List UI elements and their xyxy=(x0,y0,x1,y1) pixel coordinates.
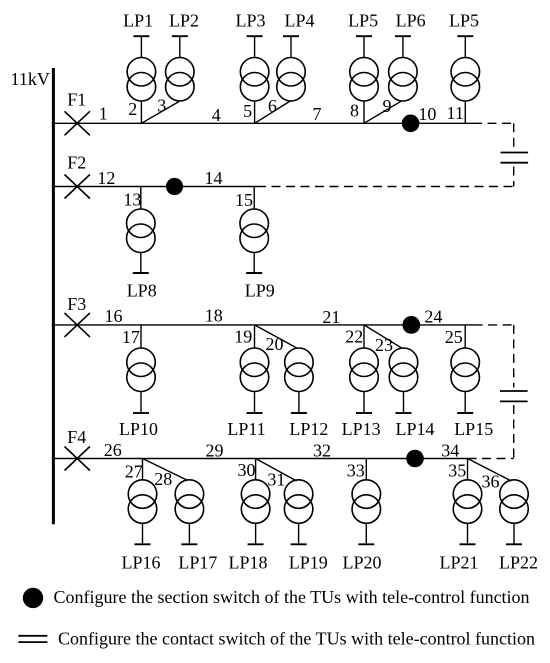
transformer LP13 xyxy=(350,325,379,413)
svg-text:LP15: LP15 xyxy=(454,419,493,439)
svg-text:LP3: LP3 xyxy=(235,10,265,30)
wire branch to LP12 (diagonal) xyxy=(255,325,297,348)
fuse/breaker F2 xyxy=(65,175,90,199)
svg-text:LP9: LP9 xyxy=(245,280,275,300)
svg-text:LP18: LP18 xyxy=(228,553,267,573)
svg-text:5: 5 xyxy=(243,101,252,121)
11kV busbar xyxy=(52,68,55,524)
svg-text:LP13: LP13 xyxy=(342,419,381,439)
svg-text:1: 1 xyxy=(99,104,108,124)
svg-text:F1: F1 xyxy=(67,90,86,110)
wire F2 tie (dashed) xyxy=(257,186,514,188)
svg-text:30: 30 xyxy=(238,460,256,480)
svg-text:F2: F2 xyxy=(67,153,86,173)
transformer LP16 xyxy=(128,459,157,545)
contact switch (tele-control) F1-F2 xyxy=(501,153,529,163)
svg-text:14: 14 xyxy=(205,168,223,188)
svg-text:2: 2 xyxy=(128,99,137,119)
fuse/breaker F4 xyxy=(65,447,90,471)
svg-text:Configure the section switch o: Configure the section switch of the TUs … xyxy=(54,587,530,607)
wire tie riser (dashed) F1 side xyxy=(513,123,515,149)
transformer LP20 xyxy=(352,459,381,545)
svg-text:29: 29 xyxy=(206,441,224,461)
transformer LP15 xyxy=(451,325,480,413)
contact switch (tele-control) F3-F4 xyxy=(500,391,528,401)
svg-text:36: 36 xyxy=(482,472,500,492)
transformer LP10 xyxy=(127,325,156,413)
svg-text:13: 13 xyxy=(123,190,141,210)
svg-text:LP4: LP4 xyxy=(284,10,314,30)
transformer LP17 xyxy=(175,480,204,545)
svg-text:16: 16 xyxy=(105,306,123,326)
svg-text:31: 31 xyxy=(267,470,285,490)
svg-text:35: 35 xyxy=(448,461,466,481)
transformer LP19 xyxy=(284,480,313,545)
transformer LP18 xyxy=(241,459,270,545)
section switch (tele-control) legend xyxy=(23,588,43,608)
svg-text:LP12: LP12 xyxy=(289,419,328,439)
svg-text:34: 34 xyxy=(441,441,459,461)
transformer LP6 xyxy=(389,36,418,101)
fuse/breaker F3 xyxy=(65,313,90,337)
wire branch to LP2 (diagonal) xyxy=(141,102,179,124)
transformer LP2 xyxy=(166,36,195,101)
svg-text:Configure the contact switch o: Configure the contact switch of the TUs … xyxy=(58,629,535,649)
wire F3 tie (dashed) xyxy=(474,324,514,326)
svg-text:17: 17 xyxy=(122,327,140,347)
svg-text:27: 27 xyxy=(125,462,143,482)
wire branch to LP19 (diagonal) xyxy=(256,459,297,482)
svg-text:19: 19 xyxy=(234,327,252,347)
svg-text:LP8: LP8 xyxy=(127,280,157,300)
svg-text:F3: F3 xyxy=(67,294,86,314)
svg-text:21: 21 xyxy=(322,307,340,327)
transformer LP8 xyxy=(127,187,156,274)
svg-text:32: 32 xyxy=(313,441,331,461)
svg-text:LP2: LP2 xyxy=(169,10,199,30)
transformer LP11 xyxy=(240,325,269,413)
wire feeder F2 trunk xyxy=(53,186,257,188)
svg-text:24: 24 xyxy=(424,307,442,327)
transformer LP22 xyxy=(500,480,529,545)
wire feeder F1 trunk xyxy=(53,122,473,124)
svg-text:18: 18 xyxy=(205,306,223,326)
svg-text:LP10: LP10 xyxy=(119,419,158,439)
svg-text:10: 10 xyxy=(418,104,436,124)
section switch (tele-control) F2 xyxy=(166,178,183,195)
svg-text:7: 7 xyxy=(313,104,322,124)
wire feeder F3 trunk xyxy=(53,324,474,326)
svg-text:LP19: LP19 xyxy=(289,553,328,573)
wire branch to LP4 (diagonal) xyxy=(255,101,291,123)
contact switch (tele-control) legend xyxy=(18,636,47,642)
section switch (tele-control) 10 xyxy=(402,115,420,133)
transformer LP14 xyxy=(389,348,418,413)
svg-text:LP17: LP17 xyxy=(178,553,217,573)
svg-text:8: 8 xyxy=(350,101,359,121)
svg-text:15: 15 xyxy=(235,190,253,210)
wire branch to LP14 (diagonal) xyxy=(364,325,401,348)
fuse/breaker F1 xyxy=(65,111,90,135)
svg-text:25: 25 xyxy=(445,327,463,347)
transformer LP3 xyxy=(240,36,269,123)
transformer LP5 xyxy=(350,36,379,123)
svg-text:4: 4 xyxy=(212,105,221,125)
svg-text:LP16: LP16 xyxy=(121,553,160,573)
wire feeder F4 trunk xyxy=(53,458,468,460)
transformer LP1 xyxy=(127,36,156,123)
transformer LP21 xyxy=(453,459,482,545)
svg-text:LP14: LP14 xyxy=(395,419,434,439)
wire tie riser (dashed) F4 side xyxy=(513,405,515,459)
svg-text:LP5: LP5 xyxy=(348,10,378,30)
transformer LP7 xyxy=(451,36,480,123)
svg-text:LP22: LP22 xyxy=(499,553,538,573)
svg-text:3: 3 xyxy=(157,95,166,115)
wire branch to LP17 (diagonal) xyxy=(143,459,188,481)
wire branch to LP6 (diagonal) xyxy=(364,101,401,123)
wire tie riser (dashed) F2 side xyxy=(513,167,515,187)
svg-text:F4: F4 xyxy=(67,427,86,447)
section switch (tele-control) F4 xyxy=(406,450,424,468)
transformer LP9 xyxy=(240,187,269,274)
svg-text:LP11: LP11 xyxy=(227,419,265,439)
svg-text:11kV: 11kV xyxy=(11,69,50,89)
wire branch to LP22 (diagonal) xyxy=(468,459,512,482)
wire F1 tie (dashed) xyxy=(473,122,514,124)
transformer LP4 xyxy=(277,36,306,101)
svg-text:11: 11 xyxy=(447,103,464,123)
transformer LP12 xyxy=(285,348,314,413)
svg-text:26: 26 xyxy=(104,440,122,460)
wire tie riser (dashed) F3 side xyxy=(513,325,515,388)
svg-text:LP21: LP21 xyxy=(439,553,478,573)
svg-text:LP20: LP20 xyxy=(342,553,381,573)
svg-text:33: 33 xyxy=(347,461,365,481)
svg-text:LP5: LP5 xyxy=(449,10,479,30)
svg-text:LP6: LP6 xyxy=(396,10,426,30)
svg-text:LP1: LP1 xyxy=(123,10,153,30)
svg-text:22: 22 xyxy=(345,327,363,347)
svg-text:9: 9 xyxy=(383,96,392,116)
wire F4 tie (dashed) xyxy=(468,458,514,460)
svg-text:20: 20 xyxy=(266,334,284,354)
section switch (tele-control) 24 xyxy=(402,316,420,334)
svg-text:12: 12 xyxy=(97,168,115,188)
